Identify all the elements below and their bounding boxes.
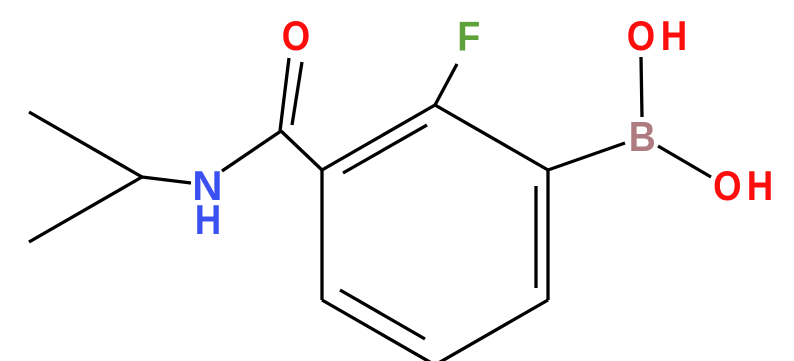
bond CH3(upper)-CH xyxy=(29,112,142,177)
svg-text:F: F xyxy=(457,13,480,60)
bond ring C3-C2 (top-left edge) xyxy=(322,105,435,170)
svg-text:O: O xyxy=(627,12,655,59)
svg-text:O: O xyxy=(282,12,310,59)
svg-text:B: B xyxy=(629,113,656,160)
bond ring C1-C6 (right edge) xyxy=(546,170,549,300)
svg-text:H: H xyxy=(195,196,222,243)
double bond C=O line 2 xyxy=(292,62,302,125)
aromatic inner line C4-C5 xyxy=(340,290,425,339)
bond C(=O)-C3(ring) xyxy=(281,131,322,170)
bond ring C2-C1 (top-right edge) xyxy=(435,105,548,170)
aromatic inner line C1-C6 xyxy=(534,186,537,288)
svg-text:H: H xyxy=(661,12,688,59)
double bond C=O line 1 xyxy=(280,58,289,131)
aromatic inner line C3-C2 xyxy=(343,125,427,173)
svg-text:O: O xyxy=(713,162,741,209)
bond B-OH (bottom) xyxy=(658,146,711,177)
bond ring C4-C5 (bottom-left edge) xyxy=(322,300,435,361)
bond N-C(=O) xyxy=(222,131,281,171)
bond C1-B xyxy=(548,143,625,170)
svg-text:H: H xyxy=(747,162,774,209)
bond B-OH (top) xyxy=(641,57,642,117)
bond CH-N xyxy=(142,177,191,183)
bond ring C3-C4 (left edge) xyxy=(320,170,323,300)
bond C2-F xyxy=(435,64,457,105)
bond ring C6-C5 (bottom-right edge) xyxy=(435,300,548,361)
bond CH3(lower)-CH xyxy=(29,177,142,242)
